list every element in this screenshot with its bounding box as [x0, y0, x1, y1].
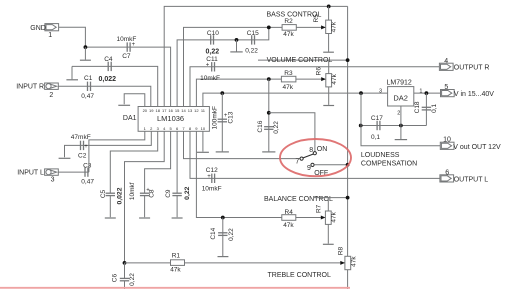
svg-text:C10: C10 [207, 30, 219, 37]
ground at input GND node [80, 47, 91, 60]
svg-text:0,47: 0,47 [81, 93, 94, 100]
svg-text:8: 8 [309, 147, 313, 154]
capacitor C5 0,022 [100, 187, 123, 204]
capacitor C13 100mkF [212, 93, 235, 151]
svg-text:R5: R5 [313, 14, 320, 23]
wire R7 stem top [327, 198, 329, 211]
svg-text:18: 18 [155, 108, 160, 113]
connector X1 GND [30, 24, 58, 40]
node balance bus junction [346, 196, 350, 200]
svg-text:R1: R1 [172, 253, 181, 260]
ground below C8 [139, 196, 150, 218]
capacitor C4 0,022 [99, 56, 117, 83]
svg-text:+: + [224, 113, 228, 119]
svg-text:+: + [207, 174, 211, 180]
wire right bus vertical [347, 6, 349, 289]
svg-text:2: 2 [49, 92, 53, 99]
svg-text:V in 15...40V: V in 15...40V [454, 91, 494, 98]
wire IC pin 9 balance rail to R7 wiper [196, 131, 324, 217]
svg-text:4: 4 [444, 58, 448, 65]
node C13 tap [220, 91, 224, 95]
label LOUDNESS COMPENSATION [361, 152, 417, 167]
svg-text:+: + [206, 62, 210, 68]
node loudness tap [267, 111, 271, 115]
wire IC pin 12 to R3 [196, 79, 281, 106]
ground between C10 and C15 [230, 40, 242, 52]
svg-text:C3: C3 [83, 163, 92, 170]
wire treble node to R1 [125, 262, 171, 264]
wire R6 stem top [328, 60, 330, 74]
svg-text:47mkF: 47mkF [71, 134, 91, 141]
annotation red line bottom [0, 287, 350, 289]
svg-text:C6: C6 [112, 274, 119, 283]
svg-text:1: 1 [419, 88, 422, 94]
capacitor C16 0,22 [257, 120, 280, 133]
capacitor C15 0,22 [245, 30, 259, 55]
wire R3 to R6 wiper [296, 78, 325, 80]
capacitor C17 0,1 [371, 115, 383, 141]
capacitor C18 0,1 [414, 93, 438, 125]
wire R7 to ground [327, 224, 329, 243]
svg-text:R3: R3 [284, 70, 293, 77]
node C18 tap [425, 91, 429, 95]
svg-text:10mkf: 10mkf [129, 182, 136, 200]
svg-text:DA2: DA2 [393, 93, 408, 102]
IC DA1 LM1036 [123, 107, 210, 132]
svg-text:7: 7 [295, 158, 299, 165]
ground wire IC pin 20 [124, 94, 145, 107]
ground below C9 [172, 196, 183, 218]
node C14 tap [221, 216, 225, 220]
svg-text:0,22: 0,22 [245, 48, 258, 55]
wire balance to bus [314, 197, 348, 199]
svg-text:C5: C5 [100, 189, 107, 198]
svg-text:15: 15 [175, 108, 180, 113]
ground below R6 [323, 105, 334, 107]
svg-text:10mkF: 10mkF [200, 75, 220, 82]
svg-text:C18: C18 [414, 101, 421, 113]
potentiometer R8 47k [337, 246, 357, 269]
svg-text:COMPENSATION: COMPENSATION [361, 161, 417, 168]
connector X2 INPUT R [16, 83, 58, 99]
resistor R3 47k [281, 70, 296, 91]
svg-text:3: 3 [379, 88, 382, 94]
wire volume control to bus [258, 59, 348, 61]
wire IC pin 13 through C11 to OUTPUT R [190, 67, 440, 107]
capacitor C12 10mkF [202, 167, 222, 193]
svg-text:C16: C16 [257, 120, 264, 132]
ground below C16 [262, 151, 275, 153]
svg-text:ON: ON [317, 146, 328, 153]
svg-text:C4: C4 [104, 56, 113, 63]
capacitor C7 10mkF [117, 36, 137, 60]
svg-text:19: 19 [149, 108, 154, 113]
svg-text:47k: 47k [331, 211, 338, 222]
svg-text:OUTPUT R: OUTPUT R [454, 64, 490, 71]
svg-text:100mkF: 100mkF [212, 106, 219, 130]
wire DA2 pin 2 stem [400, 106, 402, 126]
svg-text:47k: 47k [331, 73, 338, 84]
svg-text:12: 12 [194, 108, 199, 113]
potentiometer R5 47k [313, 14, 338, 34]
svg-text:0,022: 0,022 [117, 187, 124, 204]
svg-text:OUTPUT L: OUTPUT L [454, 176, 489, 183]
ground below pin 20 wire [118, 104, 130, 106]
svg-text:TREBLE CONTROL: TREBLE CONTROL [268, 272, 332, 279]
svg-text:0,22: 0,22 [206, 48, 220, 55]
svg-text:10: 10 [201, 126, 206, 131]
connector X6 OUTPUT L [440, 169, 488, 183]
ground below C14 [218, 256, 229, 258]
svg-text:20: 20 [143, 108, 148, 113]
connector X3 INPUT L [17, 169, 58, 184]
wire IC pin 2 to C2 [80, 131, 151, 145]
node bass input junction [267, 26, 271, 30]
svg-text:R8: R8 [337, 246, 344, 255]
node treble junction [123, 261, 127, 265]
ground below DA2 pin 2 [395, 126, 407, 140]
svg-text:V out OUT 12V: V out OUT 12V [453, 144, 501, 151]
capacitor C1 0,47 [81, 75, 94, 100]
wire IC pin 7 to switch contact 7 [184, 131, 300, 158]
capacitor C8 10mkf [129, 182, 155, 200]
ground at C2 [59, 157, 71, 159]
wire C17 rail [361, 125, 427, 127]
svg-text:+: + [84, 144, 88, 150]
wire INPUT L to C3 [58, 171, 89, 173]
svg-text:R4: R4 [285, 209, 294, 216]
connector X10 V out [440, 137, 501, 151]
svg-text:5: 5 [444, 84, 448, 91]
ground below pin 10 [197, 151, 209, 153]
svg-text:9: 9 [307, 165, 311, 172]
wire C3 up to IC pin 1 [89, 131, 145, 172]
switch lever [303, 154, 313, 158]
node ground junction [84, 45, 88, 49]
wire IC pin 10 to ground [202, 131, 204, 151]
capacitor C2 47mkF [71, 134, 91, 159]
ground below R5 [323, 51, 334, 53]
svg-text:0,47: 0,47 [81, 179, 94, 186]
svg-text:R7: R7 [315, 204, 322, 213]
svg-text:C2: C2 [78, 152, 87, 159]
svg-text:0,22: 0,22 [273, 121, 280, 134]
svg-text:C13: C13 [227, 111, 234, 123]
wire INPUT R to C1 to IC pin 19 [58, 86, 151, 106]
wire R1 to R8 wiper [185, 262, 345, 264]
svg-text:LM1036: LM1036 [157, 114, 184, 123]
svg-text:6: 6 [445, 169, 449, 176]
node C17 left junction [359, 124, 363, 128]
svg-text:1: 1 [48, 32, 52, 39]
capacitor C14 0,22 [210, 218, 235, 257]
wire IC pin 11 minus rail to DA2 pin 3 [203, 93, 388, 106]
svg-text:C1: C1 [84, 75, 93, 82]
svg-text:47k: 47k [330, 21, 337, 32]
node DA2 pin 2 junction [399, 124, 403, 128]
wire IC pin 6 to C9 [176, 131, 178, 193]
svg-text:13: 13 [188, 108, 193, 113]
svg-text:14: 14 [181, 108, 186, 113]
svg-text:0,1: 0,1 [431, 104, 438, 113]
wire IC pin 3 to C5 [110, 131, 157, 193]
svg-text:C14: C14 [210, 227, 217, 239]
capacitor C11 10mkF [200, 56, 220, 82]
svg-text:DA1: DA1 [123, 115, 137, 122]
svg-text:R2: R2 [284, 18, 293, 25]
wire IC pin 8 through C12 to OUTPUT L [190, 131, 440, 178]
wire IC pin 4 to treble node [125, 131, 165, 263]
resistor R1 47k [170, 253, 184, 274]
svg-text:47k: 47k [283, 31, 294, 38]
potentiometer R7 47k [315, 204, 337, 224]
node DA2 input junction [359, 91, 363, 95]
svg-text:10: 10 [443, 137, 451, 144]
ground below R7 [323, 243, 334, 245]
wire IC pin 14 to R2 [184, 27, 283, 106]
resistor R2 47k [282, 18, 296, 38]
wire GND connector to ground node and C7 to IC pin 16 [59, 27, 171, 106]
svg-text:47k: 47k [170, 267, 181, 274]
wire switch OFF to bus [314, 164, 347, 166]
svg-text:C9: C9 [165, 189, 172, 198]
capacitor C6 0,22 [112, 263, 137, 289]
svg-text:0,22: 0,22 [184, 186, 191, 199]
switch contact 8 ON [309, 146, 327, 155]
svg-text:+: + [146, 188, 150, 194]
wire R2 to R5 wiper [296, 26, 325, 28]
svg-text:16: 16 [168, 108, 173, 113]
resistor R4 47k [282, 209, 296, 229]
wire C4 to IC pin 18 [72, 66, 158, 106]
svg-text:LM7912: LM7912 [387, 79, 412, 86]
switch contact 7 [295, 157, 303, 165]
capacitor C9 0,22 [165, 186, 191, 199]
ground below C5 [105, 196, 116, 218]
label TREBLE CONTROL [268, 272, 332, 279]
node switch bus junction [346, 163, 350, 167]
wire loudness tap to switch ON contact [269, 113, 315, 152]
svg-text:LOUDNESS: LOUDNESS [361, 152, 400, 159]
svg-text:VOLUME CONTROL: VOLUME CONTROL [267, 57, 333, 64]
svg-text:2: 2 [397, 111, 400, 117]
label VOLUME CONTROL [267, 57, 333, 64]
wire IC pin 5 to C8 [145, 131, 171, 193]
label BALANCE CONTROL [264, 196, 333, 203]
svg-text:C15: C15 [247, 30, 259, 37]
wire top rail pin 17 to right bus [164, 6, 347, 106]
wire volume node to C16 [268, 79, 270, 151]
svg-text:47k: 47k [283, 84, 294, 91]
wire R5 stem top [328, 6, 330, 20]
wire DA2 pin 1 to V in connector [414, 92, 441, 94]
svg-text:0,1: 0,1 [371, 134, 380, 141]
node volume input junction [267, 77, 271, 81]
svg-text:R6: R6 [315, 67, 322, 76]
capacitor C3 0,47 [81, 163, 94, 186]
svg-text:0,22: 0,22 [129, 273, 136, 286]
svg-text:17: 17 [162, 108, 167, 113]
svg-text:0,022: 0,022 [99, 76, 117, 83]
svg-text:C17: C17 [371, 115, 383, 122]
wire R6 to ground [328, 87, 330, 105]
ground at C4 left [66, 66, 78, 79]
svg-text:INPUT R: INPUT R [16, 84, 44, 91]
annotation red ellipse around switch [280, 139, 351, 176]
svg-text:0,22: 0,22 [228, 228, 235, 241]
node top rail R5 junction [327, 5, 331, 9]
potentiometer R6 47k [315, 67, 338, 87]
wire C10 C15 net to IC pin 15 [177, 27, 269, 106]
node volume bus junction [346, 58, 350, 62]
svg-text:47k: 47k [350, 256, 357, 267]
connector X4 OUTPUT R [439, 58, 489, 71]
wire minus 12V vertical to V out [361, 93, 440, 146]
svg-text:GND: GND [30, 25, 46, 32]
svg-text:+: + [132, 42, 136, 48]
wire R5 to ground [328, 34, 330, 52]
voltage regulator DA2 LM7912 [379, 79, 422, 116]
connector X5 V in [441, 84, 495, 98]
svg-text:47k: 47k [283, 222, 294, 229]
label BASS CONTROL [267, 11, 322, 18]
capacitor C10 0,22 [206, 30, 220, 55]
node C10 C15 ground tap [235, 38, 239, 42]
wire C2 to ground [65, 145, 81, 157]
svg-text:10mkF: 10mkF [202, 186, 222, 193]
svg-text:3: 3 [51, 177, 55, 184]
switch contact 9 OFF [307, 163, 328, 177]
svg-text:C7: C7 [122, 53, 131, 60]
ground below C13 [216, 151, 229, 153]
svg-text:INPUT L: INPUT L [17, 170, 44, 177]
